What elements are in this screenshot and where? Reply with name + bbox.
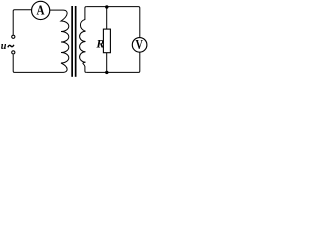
- wire: bottom-left from primary to lower terminal: [13, 55, 63, 73]
- wire: secondary top to right branch: [86, 7, 140, 38]
- wire: resistor bottom to junction: [106, 53, 108, 73]
- wire: ammeter to transformer primary: [50, 9, 64, 11]
- svg-text:R: R: [95, 37, 104, 51]
- svg-text:u: u: [1, 41, 7, 52]
- transformer primary winding L1: [61, 10, 69, 72]
- transformer core bar 1: [71, 6, 73, 77]
- transformer secondary winding L2: [80, 7, 87, 73]
- svg-text:V: V: [135, 36, 143, 52]
- source terminal lower: [12, 51, 15, 54]
- background: [0, 0, 150, 82]
- svg-text:A: A: [37, 3, 45, 18]
- wire: voltmeter bottom to bottom-right corner: [86, 53, 140, 73]
- source terminal upper: [12, 35, 15, 38]
- ammeter A1 circle: [32, 1, 50, 19]
- junction dot top: [105, 5, 108, 8]
- transformer core bar 2: [75, 6, 77, 77]
- wire: junction to resistor top: [106, 7, 108, 30]
- source label ~: [8, 45, 14, 48]
- voltmeter V1 circle: [132, 38, 147, 53]
- junction dot bottom: [105, 71, 108, 74]
- wire: top-left from upper terminal up and right to ammeter: [13, 10, 32, 35]
- resistor R body: [103, 29, 110, 53]
